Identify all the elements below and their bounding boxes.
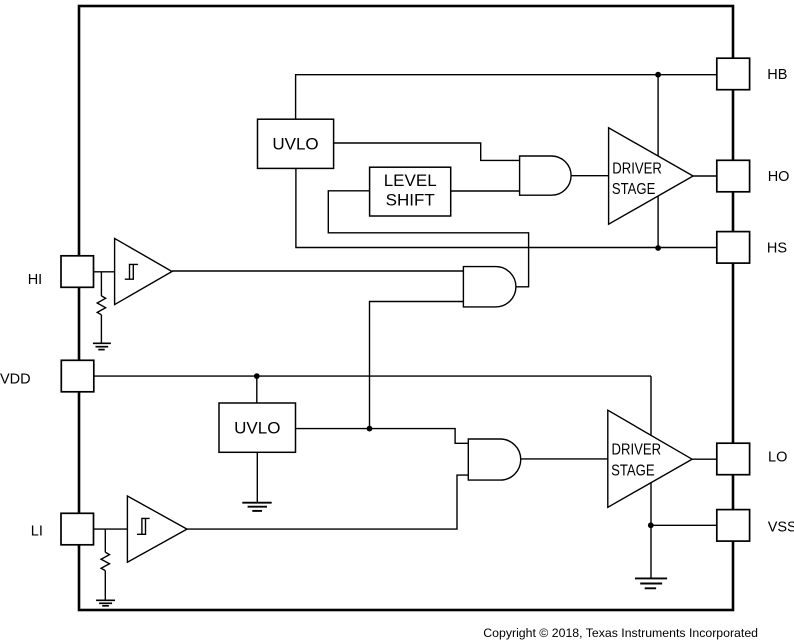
pin LI bbox=[61, 513, 94, 545]
svg-text:STAGE: STAGE bbox=[612, 181, 656, 198]
block LEVEL SHIFT bbox=[370, 167, 451, 216]
svg-text:HB: HB bbox=[767, 67, 787, 83]
node UVLO2 output junction bbox=[367, 426, 373, 432]
pin VDD bbox=[61, 360, 94, 392]
svg-text:Copyright © 2018, Texas Instru: Copyright © 2018, Texas Instruments Inco… bbox=[483, 626, 758, 640]
svg-text:UVLO: UVLO bbox=[272, 134, 318, 153]
wire HI pulldown resistor top lead bbox=[100, 272, 102, 296]
buffer U4 (LI schmitt trigger) bbox=[127, 496, 187, 562]
svg-text:LEVEL: LEVEL bbox=[384, 171, 437, 190]
pin VSS bbox=[717, 510, 750, 541]
IC boundary box bbox=[79, 6, 733, 610]
wire LI pin to schmitt buffer bbox=[94, 528, 128, 530]
node HB junction bbox=[655, 72, 661, 78]
wire HS rail: from UVLO top bottom, down and right to HS pin bbox=[296, 168, 717, 247]
svg-text:LO: LO bbox=[768, 449, 787, 465]
hysteresis symbol (HI buffer) bbox=[125, 264, 138, 279]
pin HO bbox=[717, 160, 750, 192]
block UVLO bottom bbox=[219, 403, 296, 452]
pin HB bbox=[717, 58, 750, 89]
AND gate bottom bbox=[468, 439, 520, 480]
AND gate top bbox=[520, 156, 571, 195]
wire VSS rail bbox=[651, 524, 717, 526]
AND gate middle bbox=[463, 267, 516, 307]
svg-text:HS: HS bbox=[767, 241, 787, 257]
wire HI schmitt output to middle AND input bbox=[172, 270, 463, 272]
wire VDD junction down to UVLO2 bbox=[256, 376, 258, 403]
hysteresis symbol (LI buffer) bbox=[137, 518, 150, 534]
wire HB-to-HS vertical through top driver stage bbox=[657, 75, 659, 248]
wire LI pulldown resistor top lead bbox=[104, 529, 106, 552]
wire LI schmitt output to bottom AND input bbox=[187, 475, 468, 529]
resistor R1 (HI pulldown) bbox=[97, 296, 105, 315]
ground (UVLO2) bbox=[242, 503, 271, 511]
svg-text:STAGE: STAGE bbox=[611, 462, 655, 479]
svg-text:UVLO: UVLO bbox=[234, 419, 280, 438]
block UVLO top bbox=[258, 119, 334, 168]
wire middle AND output to LEVEL SHIFT input bbox=[328, 191, 528, 287]
wire bottom AND output to bottom driver stage bbox=[521, 458, 608, 460]
svg-text:VDD: VDD bbox=[0, 371, 31, 387]
wire UVLO2 output junction up to middle AND input bbox=[370, 302, 464, 429]
buffer U3 (HI schmitt trigger) bbox=[115, 238, 172, 304]
svg-text:SHIFT: SHIFT bbox=[386, 190, 435, 209]
pin HI bbox=[61, 256, 94, 287]
wire VDD rail to bottom driver vertical bbox=[94, 375, 651, 377]
ground (LI resistor) bbox=[96, 600, 115, 606]
ground (VSS) bbox=[635, 578, 667, 588]
node HS junction bbox=[655, 245, 661, 251]
wire HI resistor bottom lead bbox=[100, 315, 102, 343]
wire top driver output to HO pin bbox=[693, 175, 717, 177]
svg-text:LI: LI bbox=[31, 524, 43, 540]
op-amp U2 (bottom driver stage triangle) bbox=[608, 410, 692, 507]
wire bottom driver output to LO pin bbox=[692, 458, 717, 460]
wire VDD vertical through bottom driver to ground bbox=[650, 376, 652, 578]
pin HS bbox=[717, 232, 750, 264]
wire UVLO2 bottom to ground bbox=[256, 452, 258, 502]
wire LEVEL SHIFT output to top AND gate input bbox=[451, 190, 520, 192]
wire LI resistor bottom lead bbox=[104, 571, 106, 601]
svg-text:VSS: VSS bbox=[768, 520, 794, 536]
svg-text:HO: HO bbox=[768, 169, 790, 185]
svg-text:HI: HI bbox=[28, 272, 43, 288]
wire top AND output to top driver stage bbox=[571, 175, 609, 177]
svg-text:DRIVER: DRIVER bbox=[612, 441, 662, 458]
node VDD-UVLO2 junction bbox=[254, 373, 260, 379]
resistor R2 (LI pulldown) bbox=[101, 552, 109, 570]
ground (HI resistor) bbox=[93, 343, 111, 349]
node VSS junction bbox=[648, 522, 654, 528]
wire HI pin to schmitt buffer bbox=[94, 271, 115, 273]
svg-text:DRIVER: DRIVER bbox=[612, 161, 662, 178]
op-amp U1 (top driver stage triangle) bbox=[609, 128, 694, 224]
wire UVLO2 output to bottom AND input bbox=[296, 429, 469, 444]
wire UVLO1 output to top AND gate input bbox=[334, 143, 520, 160]
wire HB rail: from UVLO top up and right to HB pin bbox=[296, 75, 717, 120]
pin LO bbox=[717, 443, 750, 475]
